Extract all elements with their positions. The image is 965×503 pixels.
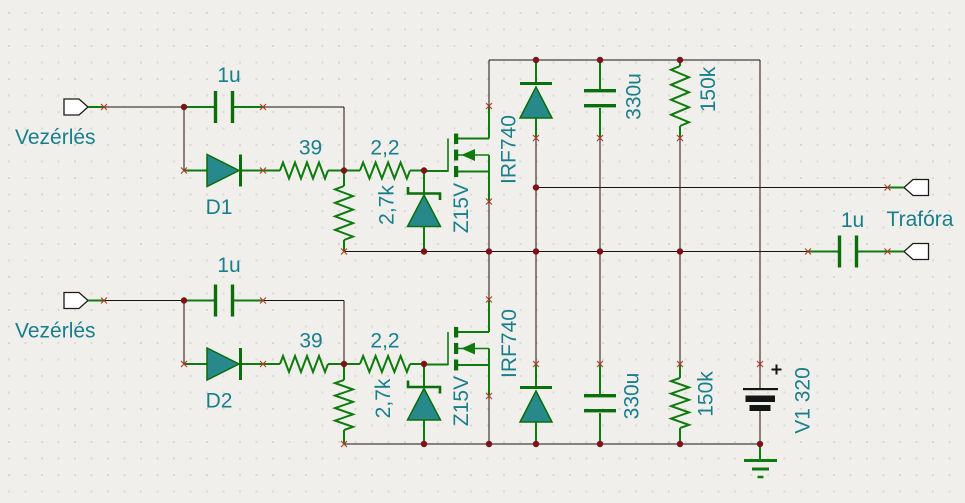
svg-text:Z15V: Z15V: [450, 376, 473, 426]
diode D1: [184, 155, 263, 187]
wire V+ top rail: [489, 59, 760, 61]
capacitor C5 1u output: [808, 236, 888, 268]
wire D3 anode down to mid rail: [535, 138, 537, 252]
zener diode Z2 Z15V: [408, 364, 441, 444]
label R1 39: [299, 137, 322, 160]
transistor Q2 IRF740: [424, 299, 489, 396]
resistor R2 2,2: [344, 163, 424, 179]
label R10 150k: [695, 371, 718, 417]
svg-text:2,7k: 2,7k: [376, 185, 399, 225]
label D2: [206, 390, 233, 413]
wire mid rail: [344, 251, 808, 253]
diode D2: [184, 348, 263, 380]
svg-text:330u: 330u: [623, 73, 646, 120]
resistor R3 2,7k: [335, 171, 353, 252]
resistor R7 2,2: [344, 356, 424, 372]
wire C4 to mid rail: [599, 252, 601, 365]
label C1 1u: [217, 64, 240, 87]
svg-text:39: 39: [299, 137, 322, 160]
label R2 2,2: [370, 137, 399, 160]
wire node A to Trafora port 1: [536, 187, 888, 189]
capacitor C2 1u: [184, 285, 263, 317]
label C2 1u: [217, 254, 240, 277]
wire junction to D2 anode: [183, 301, 185, 365]
wire C2 to gate node corner: [263, 301, 344, 365]
wire bottom rail: [344, 443, 760, 445]
label R3 2,7k: [376, 185, 399, 225]
label C4 330u: [621, 373, 644, 420]
wire Q2 drain to mid rail: [488, 252, 490, 300]
svg-text:2,2: 2,2: [370, 137, 399, 160]
wire R5 down to mid rail: [679, 138, 681, 252]
label C5 1u: [841, 209, 864, 232]
svg-text:Vezérlés: Vezérlés: [15, 320, 96, 343]
label Trafóra: [887, 208, 954, 231]
diode D3 freewheel upper: [520, 60, 552, 138]
label Q1 IRF740: [498, 115, 521, 184]
label Z1 Z15V: [450, 183, 473, 233]
resistor R1 39: [263, 163, 344, 179]
label Vezérlés 2: [15, 320, 96, 343]
wire battery positive riser: [759, 60, 761, 364]
label D1: [206, 196, 233, 219]
wire input2 port to junction: [104, 300, 184, 302]
pin connection markers: [101, 103, 891, 447]
wire Q1 drain to top rail: [488, 60, 490, 106]
label C3 330u: [623, 73, 646, 120]
battery plus sign: [772, 365, 782, 375]
capacitor C4 330u lower: [584, 364, 616, 444]
resistor R5 150k upper: [671, 60, 689, 138]
svg-text:IRF740: IRF740: [498, 309, 521, 378]
label Vezérlés 1: [15, 126, 96, 149]
svg-text:2,7k: 2,7k: [372, 378, 395, 418]
zener diode Z1 Z15V: [408, 171, 441, 252]
port Vezérlés 1: [64, 99, 104, 115]
svg-text:1u: 1u: [841, 209, 864, 232]
label R7 2,2: [370, 330, 399, 353]
svg-text:1u: 1u: [217, 64, 240, 87]
wire C1 to gate node corner: [263, 107, 344, 171]
svg-text:2,2: 2,2: [370, 330, 399, 353]
capacitor C1 1u: [184, 91, 263, 123]
label V1 320: [792, 367, 815, 434]
capacitor C3 330u upper: [584, 60, 616, 138]
svg-text:V1 320: V1 320: [792, 367, 815, 434]
wire input1 port to junction: [104, 106, 184, 108]
svg-text:Vezérlés: Vezérlés: [15, 126, 96, 149]
svg-text:Trafóra: Trafóra: [887, 208, 954, 231]
label Z2 Z15V: [450, 376, 473, 426]
label Q2 IRF740: [498, 309, 521, 378]
label R8 2,7k: [372, 378, 395, 418]
diode D4 freewheel lower: [520, 364, 552, 444]
port Vezérlés 2: [64, 293, 104, 309]
svg-text:Z15V: Z15V: [450, 183, 473, 233]
wire Q1 source to mid rail: [488, 200, 490, 252]
svg-text:D2: D2: [206, 390, 233, 413]
wire junction to D1 anode: [183, 107, 185, 171]
port Trafóra 2: [888, 244, 929, 260]
resistor R6 39: [263, 356, 344, 372]
wire battery to bottom rail: [759, 411, 761, 444]
wire R10 to mid rail: [679, 252, 681, 365]
resistor R10 150k lower: [671, 364, 689, 444]
svg-text:IRF740: IRF740: [498, 115, 521, 184]
wire D4 cathode to mid rail: [535, 252, 537, 365]
transistor Q1 IRF740: [424, 106, 489, 203]
battery V1 320: [743, 364, 778, 411]
wire C3 down to mid rail: [599, 138, 601, 252]
label R6 39: [299, 330, 322, 353]
resistor R8 2,7k: [335, 364, 353, 444]
svg-text:330u: 330u: [621, 373, 644, 420]
wire Q2 source to bottom rail: [488, 393, 490, 444]
svg-text:150k: 150k: [697, 66, 720, 112]
svg-text:D1: D1: [206, 196, 233, 219]
svg-text:150k: 150k: [695, 371, 718, 417]
svg-text:1u: 1u: [217, 254, 240, 277]
port Trafóra 1: [888, 180, 929, 196]
label R5 150k: [697, 66, 720, 112]
ground: [744, 444, 777, 477]
svg-text:39: 39: [299, 330, 322, 353]
